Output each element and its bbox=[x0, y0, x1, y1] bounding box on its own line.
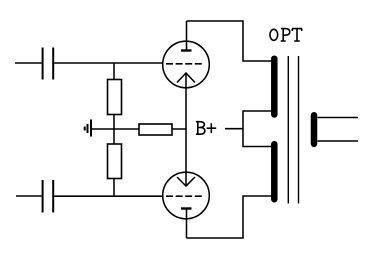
resistor (upper grid resistor) bbox=[108, 80, 122, 115]
top tube grid (dashed) bbox=[166, 63, 203, 65]
wire: grid bias rail (vertical) bbox=[113, 63, 115, 196]
wire: top tube plate lead bbox=[186, 21, 188, 51]
resistor (cathode bias resistor) bbox=[139, 124, 172, 135]
ground bbox=[85, 120, 91, 137]
wire: bottom cap to bottom tube grid bbox=[54, 195, 163, 197]
label B+ bbox=[196, 122, 216, 135]
wire: top plate to OPT primary top bbox=[187, 21, 272, 61]
transformer core bbox=[288, 56, 298, 204]
tube (top triode) envelope bbox=[163, 41, 210, 88]
wire: secondary top lead bbox=[318, 117, 359, 119]
resistor (lower grid resistor) bbox=[108, 144, 122, 179]
bottom tube grid (dashed) bbox=[166, 195, 203, 197]
wire: bottom tube plate lead bbox=[186, 209, 188, 239]
capacitor (bottom coupling cap) bbox=[43, 180, 54, 213]
label OPT bbox=[270, 29, 302, 41]
wire: top input lead bbox=[15, 62, 42, 64]
output transformer primary (lower half winding) bbox=[271, 144, 278, 199]
top tube cathode chevron bbox=[177, 73, 195, 83]
wire: cathode line between tubes bbox=[185, 73, 187, 186]
capacitor (top coupling cap) bbox=[43, 48, 54, 80]
wire: secondary bottom lead bbox=[318, 140, 359, 142]
wire: top cap to top tube grid bbox=[54, 62, 163, 64]
output transformer secondary winding bbox=[311, 115, 318, 144]
wire: B+ stub bbox=[225, 128, 243, 130]
output transformer primary (upper half winding) bbox=[271, 59, 278, 115]
wire: bottom plate to OPT primary bottom bbox=[187, 196, 272, 238]
wire: ground to cathode resistor bbox=[91, 128, 186, 130]
wire: center tap fork bbox=[243, 111, 272, 147]
tube (bottom triode) envelope bbox=[163, 172, 210, 219]
wire: bottom input lead bbox=[16, 195, 42, 197]
bottom tube cathode chevron bbox=[177, 177, 195, 186]
top tube plate bar bbox=[181, 49, 192, 51]
bottom tube plate bar bbox=[181, 207, 192, 209]
